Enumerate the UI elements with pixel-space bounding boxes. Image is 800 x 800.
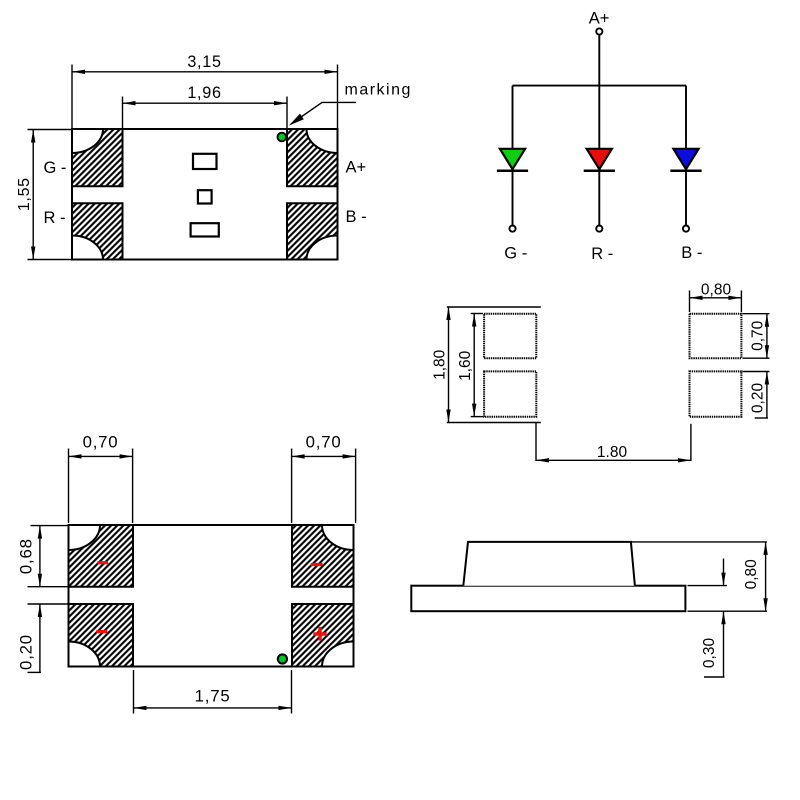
- bottom view pad top-left (hatched): [69, 525, 134, 587]
- dimension 0,30 (base thickness, side view): [701, 559, 726, 678]
- red LED D2 triangle: [587, 149, 612, 169]
- green LED D1 cathode terminal: [509, 226, 515, 232]
- dimension 0,70 (left pad width, bottom view): [69, 433, 133, 524]
- solder pad right-top (dotted): [690, 314, 742, 359]
- red plus mark bottom-right pad (anode): [313, 627, 327, 641]
- svg-text:0,20: 0,20: [17, 634, 36, 670]
- extension line step (0,30 ref): [688, 585, 728, 587]
- svg-text:G -: G -: [504, 245, 527, 263]
- svg-text:0,80: 0,80: [743, 559, 760, 590]
- svg-text:A+: A+: [346, 159, 367, 177]
- green marking dot, top view: [278, 133, 287, 142]
- blue LED D3 triangle: [673, 149, 698, 169]
- dimension 1,80 (land pattern height): [431, 307, 541, 423]
- svg-text:1,80: 1,80: [431, 349, 448, 380]
- svg-text:R -: R -: [44, 209, 66, 227]
- terminal A+: [596, 28, 602, 34]
- svg-text:A+: A+: [589, 10, 610, 28]
- svg-text:0,20: 0,20: [750, 383, 767, 414]
- svg-text:1,60: 1,60: [457, 350, 474, 381]
- dimension 0,68 (pad height, bottom view): [17, 526, 69, 587]
- bottom view pad bottom-right (hatched): [292, 604, 354, 667]
- svg-text:B -: B -: [346, 208, 367, 226]
- marking leader arrow: [287, 102, 356, 128]
- dimension 0,80 (overall height, side view): [743, 542, 768, 611]
- wire to blue LED: [685, 86, 687, 149]
- wire anode vertical: [598, 35, 600, 149]
- solder pad left-bottom (dotted): [484, 371, 536, 416]
- blue LED D3 cathode terminal: [683, 226, 689, 232]
- extension line bottom (0,80 ref): [688, 610, 767, 612]
- dimension 1,60 (pads extent): [457, 314, 483, 417]
- dimension 1,55 (overall height, top view): [16, 130, 72, 260]
- wire to green LED: [512, 86, 514, 149]
- green pin-1 dot, bottom view: [278, 654, 287, 663]
- svg-text:1,96: 1,96: [187, 84, 221, 102]
- polarity mark rectangle 3: [191, 223, 219, 236]
- red LED D2 cathode terminal: [596, 226, 602, 232]
- svg-text:0,68: 0,68: [17, 538, 36, 574]
- bottom view pad top-right (hatched): [292, 525, 354, 587]
- green LED D1 triangle: [500, 149, 525, 169]
- svg-text:0,70: 0,70: [750, 320, 767, 351]
- dimension 1,96 (inner body width, top view): [123, 84, 288, 129]
- polarity mark rectangle 1: [193, 154, 217, 169]
- red minus mark bottom-left pad: [96, 630, 107, 633]
- svg-text:0,70: 0,70: [83, 433, 119, 452]
- svg-text:0,80: 0,80: [701, 282, 732, 299]
- dimension 1.80 (pad column spacing): [536, 423, 691, 463]
- dimension 3,15 (overall width, top view): [72, 53, 338, 129]
- dimension 0,20 (pad gap, bottom view): [17, 604, 69, 672]
- pad A+ (top-right hatched pad, top view): [287, 129, 338, 186]
- solder pad left-top (dotted): [484, 314, 536, 359]
- package body outline, top view: [72, 129, 338, 260]
- extension line top (0,80 ref): [631, 541, 767, 543]
- svg-text:1,55: 1,55: [16, 177, 33, 211]
- bottom view pad bottom-left (hatched): [69, 604, 134, 667]
- green LED D1 cathode bar: [497, 170, 528, 173]
- dimension 0,20 (pad gap): [743, 372, 770, 419]
- svg-text:3,15: 3,15: [187, 53, 221, 71]
- dimension 0,80 (pad width): [690, 282, 742, 313]
- svg-text:G -: G -: [44, 159, 67, 177]
- red minus mark top-left pad: [98, 561, 109, 564]
- svg-text:0,30: 0,30: [701, 638, 718, 669]
- dimension 0,70 (right pad width, bottom view): [292, 433, 356, 524]
- pad G- (top-left hatched pad, top view): [72, 129, 123, 186]
- package body outline, bottom view: [69, 525, 354, 667]
- blue LED D3 cathode bar: [670, 170, 701, 173]
- svg-text:marking: marking: [345, 82, 412, 99]
- red minus mark top-right pad: [311, 563, 323, 566]
- blue LED D3 cathode wire: [685, 171, 687, 226]
- svg-text:R -: R -: [591, 245, 613, 263]
- pad R- (bottom-left hatched pad, top view): [72, 203, 123, 259]
- red LED D2 cathode bar: [584, 170, 615, 173]
- svg-text:0,70: 0,70: [306, 433, 342, 452]
- side view lens body (trapezoid): [463, 542, 635, 586]
- polarity mark rectangle 2: [198, 190, 212, 203]
- solder pad right-bottom (dotted): [690, 371, 742, 416]
- svg-text:1,75: 1,75: [195, 687, 231, 706]
- dimension 0,70 (pad height): [743, 314, 770, 359]
- side view substrate base: [411, 586, 685, 612]
- dimension 1,75 (inner pad spacing, bottom view): [134, 670, 292, 714]
- green LED D1 cathode wire: [512, 171, 514, 226]
- svg-text:1.80: 1.80: [597, 444, 628, 461]
- pad B- (bottom-right hatched pad, top view): [287, 203, 338, 259]
- svg-text:B -: B -: [681, 244, 702, 262]
- red LED D2 cathode wire: [598, 171, 600, 226]
- wire anode bus horizontal: [513, 85, 687, 87]
